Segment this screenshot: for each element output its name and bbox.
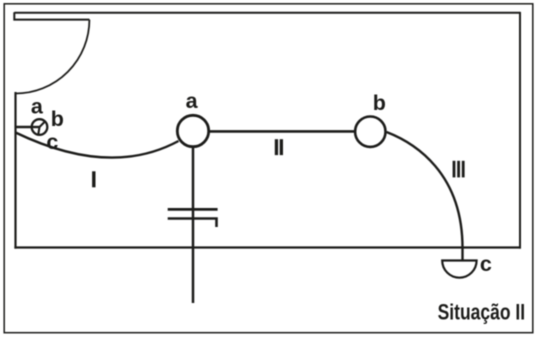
door swing arc [16,20,90,94]
wall top [14,12,520,14]
label II [275,139,283,155]
door leaf (open against top wall) [14,12,89,19]
label I [92,171,95,187]
conductor tick 1 [168,208,218,211]
svg-text:a: a [186,89,199,113]
wire I [16,133,179,158]
conductor tick 2 with hook [168,219,217,228]
svg-text:c: c [46,130,58,154]
junction box a [177,115,208,146]
lamp drop wire [192,147,195,303]
switch S1 (three-way) [32,119,48,135]
svg-text:a: a [31,95,44,119]
wire III [387,132,463,261]
wall lamp c (sconce) [442,261,476,278]
wire: switch stem to wall [16,126,40,129]
wire II [209,130,355,133]
svg-text:b: b [373,91,386,115]
svg-text:Situação II: Situação II [438,299,525,324]
svg-text:b: b [51,107,64,131]
wall left [14,92,16,249]
wall right [519,12,521,249]
junction box b [355,117,385,147]
wall bottom [14,246,521,248]
label III [453,161,465,178]
svg-text:c: c [480,252,492,276]
